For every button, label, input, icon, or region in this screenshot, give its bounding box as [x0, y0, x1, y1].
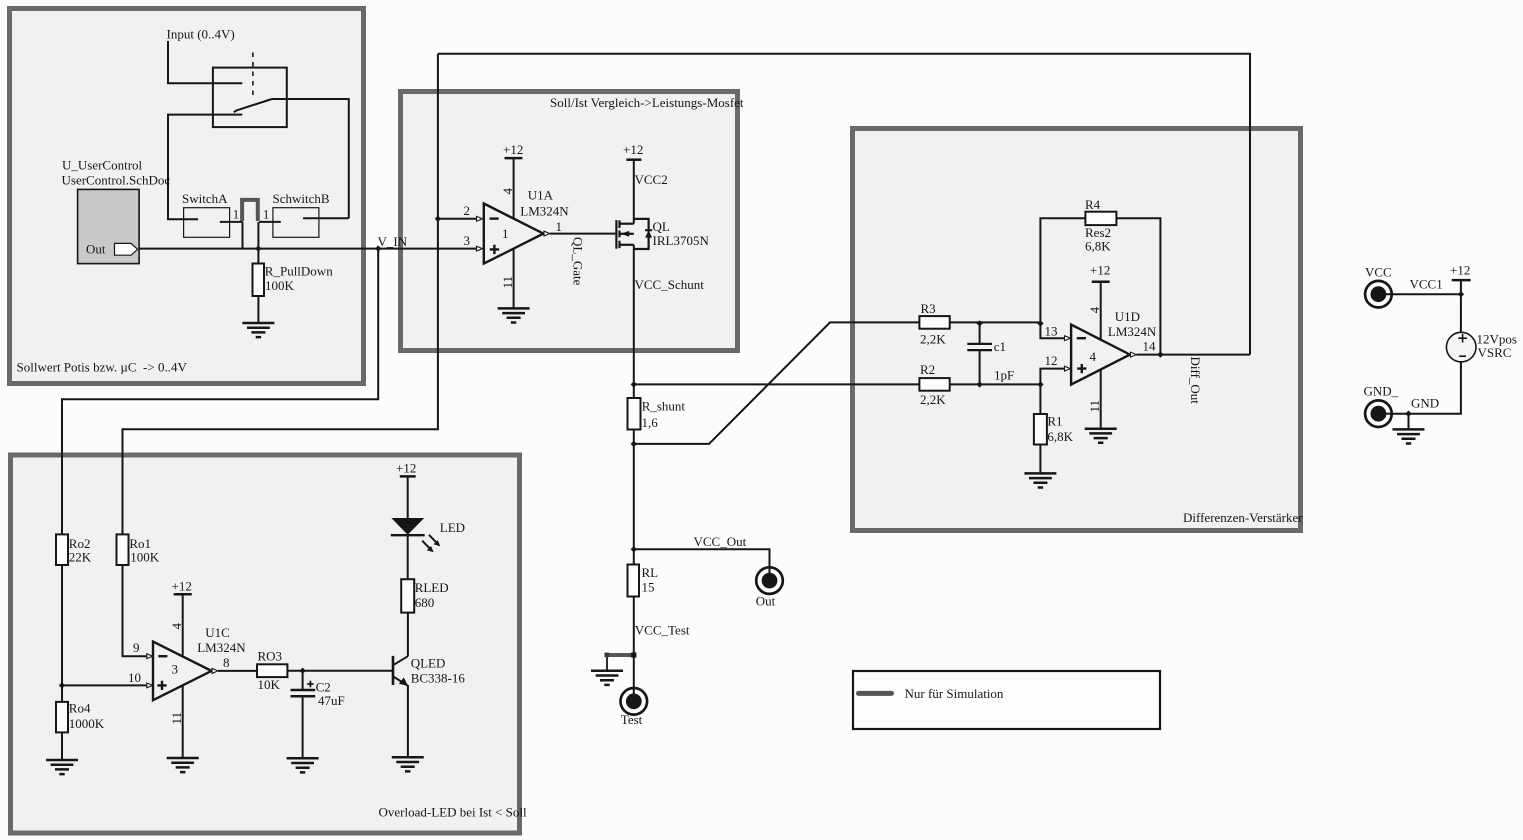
legend sample thick grey wire: [859, 691, 892, 696]
svg-text:1,6: 1,6: [642, 415, 659, 430]
svg-text:+12: +12: [503, 142, 523, 157]
led LED arrow 2: [422, 541, 429, 549]
resistor RLED body: [401, 579, 414, 612]
svg-text:Out: Out: [86, 241, 106, 256]
wire VSRC bottom to GND: [1409, 362, 1461, 414]
mosfet QL channel segments: [618, 220, 620, 248]
wire VCC2 to drain: [633, 160, 635, 224]
svg-text:R_PullDown: R_PullDown: [265, 264, 333, 279]
svg-text:R4: R4: [1085, 197, 1101, 212]
junction VCC1/+12: [1458, 291, 1464, 297]
mosfet QL source stub: [620, 244, 634, 246]
svg-text:2,2K: 2,2K: [920, 392, 946, 407]
wire U1D output to Diff_Out: [1136, 354, 1250, 356]
svg-text:Soll/Ist Vergleich->Leistungs-: Soll/Ist Vergleich->Leistungs-Mosfet: [550, 95, 744, 110]
wire U1C output to RO3: [218, 670, 257, 672]
sheet region box: Overload-LED: [11, 455, 520, 833]
diode cathode bar: [645, 229, 652, 231]
wire R3 input with diagonal from shunt: [634, 322, 920, 444]
power +12 bar U1D: [1092, 281, 1110, 284]
svg-text:14: 14: [1143, 339, 1157, 354]
junction R_shunt bottom: [631, 441, 637, 447]
sheet region box: Sollwert Potis: [10, 9, 364, 384]
svg-text:QL: QL: [653, 219, 670, 234]
svg-text:RO3: RO3: [258, 649, 283, 664]
wire from VCC port: [1384, 293, 1393, 295]
sheet region box: Soll/Ist Vergleich: [401, 92, 738, 351]
svg-text:Sollwert Potis bzw. µC -> 0..: Sollwert Potis bzw. µC -> 0..4V: [17, 359, 188, 374]
svg-text:+12: +12: [1450, 263, 1470, 278]
wire V_IN down to Ro2: [62, 249, 378, 535]
svg-text:3: 3: [464, 233, 471, 248]
svg-text:GND: GND: [1411, 395, 1439, 410]
svg-text:Overload-LED bei Ist < Soll: Overload-LED bei Ist < Soll: [379, 804, 528, 819]
wire sim ground stem: [606, 655, 608, 670]
switch S1 actuator dashed: [252, 53, 254, 97]
junction at SchwitchB pin1 / output: [255, 245, 261, 251]
svg-text:BC338-16: BC338-16: [411, 670, 466, 685]
svg-text:Ro2: Ro2: [69, 536, 91, 551]
ground below QLED: [392, 757, 424, 771]
pin 3 input arrow: [477, 246, 483, 251]
ground below R1: [1024, 473, 1056, 487]
capacitor C2 bottom lead: [302, 696, 304, 758]
mosfet QL body-diode loop: [634, 219, 649, 249]
op-amp U1C triangle: [153, 642, 212, 701]
svg-text:R1: R1: [1047, 414, 1062, 429]
mosfet QL symbol: [616, 160, 652, 249]
mosfet QL body stub: [620, 233, 634, 235]
wire main output net to V_IN: [138, 248, 477, 250]
junction RO3/C2: [299, 668, 305, 674]
wire VCC_Out to port: [634, 549, 770, 574]
port GND_ inner: [1371, 406, 1387, 422]
svg-text:100K: 100K: [265, 278, 295, 293]
svg-text:R3: R3: [921, 301, 936, 316]
resistor R4 body: [1085, 212, 1116, 225]
diode anode triangle: [645, 231, 652, 238]
ground below U1C: [167, 758, 199, 772]
wire into Out port: [769, 566, 771, 576]
ground below U1A: [498, 308, 530, 322]
resistor RO3 body: [257, 664, 287, 677]
wire from GND_ port: [1384, 413, 1393, 415]
svg-text:2: 2: [464, 203, 471, 218]
svg-text:+12: +12: [623, 142, 643, 157]
svg-text:100K: 100K: [130, 550, 160, 565]
svg-text:c1: c1: [994, 339, 1006, 354]
wire R_PullDown to ground: [257, 296, 259, 323]
sheet entry port Out: [115, 243, 138, 255]
wire simulation link SwitchA-SchwitchB: [242, 200, 258, 221]
svg-text:680: 680: [415, 595, 435, 610]
svg-text:2,2K: 2,2K: [920, 332, 946, 347]
relay SwitchA right contact: [220, 221, 243, 223]
op-amp U1D output arrow: [1131, 352, 1137, 357]
transistor QLED collector: [394, 613, 408, 665]
junction sim wire left end: [605, 653, 610, 658]
wire VCC1: [1385, 293, 1461, 295]
svg-text:11: 11: [1087, 400, 1102, 413]
wire pin12 jog: [1040, 369, 1064, 385]
wire SwitchA pin1 down: [242, 222, 244, 249]
ground sim: [591, 671, 623, 685]
svg-text:+12: +12: [1090, 263, 1110, 278]
power +12 bar U1A: [505, 157, 523, 160]
svg-text:10K: 10K: [258, 677, 281, 692]
BOX1: [138, 41, 477, 323]
power +12 bar source: [1452, 279, 1471, 282]
svg-text:V_IN: V_IN: [378, 234, 408, 249]
wire feedback top long: [438, 54, 1250, 355]
svg-text:RLED: RLED: [415, 580, 449, 595]
mosfet QL drain stub: [620, 223, 634, 225]
RIGHT: [1385, 280, 1471, 429]
relay SchwitchB left contact: [259, 221, 281, 223]
led LED arrow 1: [429, 535, 436, 543]
resistor Ro1 body: [117, 534, 129, 565]
svg-text:GND_: GND_: [1364, 384, 1399, 399]
svg-text:U_UserControl: U_UserControl: [62, 158, 143, 173]
led LED triangle: [391, 518, 424, 535]
wire R4 feedback loop: [1040, 218, 1160, 354]
svg-text:6,8K: 6,8K: [1047, 429, 1073, 444]
power +12 bar QL: [626, 158, 641, 161]
wire R2 input from shunt top: [634, 383, 920, 385]
transistor QLED base bar: [392, 656, 395, 685]
wire into Test port: [633, 687, 635, 697]
transistor QLED emitter: [394, 677, 408, 757]
resistor RL body: [628, 565, 640, 597]
resistor R_shunt body: [628, 398, 641, 430]
wire junction to R_PullDown: [257, 249, 259, 264]
legend box: [853, 671, 1160, 729]
wire U1A output to gate: [550, 233, 616, 235]
mosfet QL body arrow: [621, 231, 629, 237]
MIDDLE: [606, 245, 770, 695]
svg-text:Diff_Out: Diff_Out: [1188, 357, 1203, 405]
relay SwitchA body: [184, 208, 230, 238]
resistor R1 body: [1034, 414, 1047, 445]
junction R_shunt top: [631, 381, 637, 387]
op-amp U1D plus sign: [1077, 364, 1086, 373]
relay SchwitchB body: [273, 208, 319, 238]
svg-text:LM324N: LM324N: [197, 640, 246, 655]
port Out inner: [762, 573, 778, 589]
port Test outer: [621, 688, 648, 715]
junction at V_IN corner: [375, 245, 381, 251]
capacitor C2 plates: [291, 690, 316, 696]
wire R3 to node c1 top: [950, 321, 1041, 323]
wire simulation ground link: [606, 653, 634, 657]
port Out outer: [756, 567, 783, 594]
switch S1 body: [213, 68, 287, 128]
svg-text:VCC2: VCC2: [635, 172, 668, 187]
op-amp U1D triangle: [1071, 325, 1130, 385]
wire GND port stub: [1385, 413, 1409, 415]
wire RO3 to QLED base: [287, 670, 393, 672]
svg-text:UserControl.SchDoc: UserControl.SchDoc: [62, 173, 171, 188]
svg-text:9: 9: [133, 640, 140, 655]
op-amp U1A pin11 line: [513, 249, 515, 308]
capacitor c1 plates: [967, 344, 992, 350]
ground below U1D: [1085, 429, 1117, 443]
BOX3: [634, 212, 1250, 473]
svg-text:VCC: VCC: [1365, 265, 1392, 280]
svg-text:1: 1: [233, 206, 240, 221]
capacitor C2 plus sign: [307, 681, 313, 687]
pin 12 input arrow: [1065, 366, 1071, 371]
svg-text:IRL3705N: IRL3705N: [653, 233, 710, 248]
sheet region box: Differenzen-Verstaerker: [853, 129, 1301, 531]
wire GND ground stem: [1408, 414, 1410, 429]
svg-text:22K: 22K: [69, 550, 92, 565]
power +12 bar LED: [400, 475, 416, 478]
resistor R1 top lead: [1039, 384, 1041, 414]
ground below GND junction: [1393, 429, 1425, 443]
capacitor C2 top lead: [302, 671, 304, 690]
resistor Ro2 body: [56, 534, 68, 565]
wire SchwitchB pin1 down: [257, 222, 259, 249]
svg-text:3: 3: [172, 661, 179, 676]
svg-text:Out: Out: [756, 593, 776, 608]
resistor RL leads: [633, 549, 635, 695]
source VSRC circle: [1446, 332, 1476, 362]
svg-text:U1D: U1D: [1115, 309, 1140, 324]
op-amp U1D minus sign: [1077, 337, 1086, 339]
wire Input net: [168, 41, 242, 83]
op-amp U1D pin11 line: [1100, 370, 1102, 428]
junction VCC_Out: [631, 546, 637, 552]
junction output/R4: [1157, 351, 1163, 357]
wire switch output: [272, 99, 349, 218]
svg-text:QL_Gate: QL_Gate: [571, 237, 586, 286]
op-amp U1C pin11 line: [182, 686, 184, 758]
op-amp U1A output arrow: [544, 231, 550, 236]
pin 10 input arrow: [147, 683, 153, 688]
ground below C2: [287, 758, 319, 772]
junction R3/c1: [976, 320, 982, 326]
svg-text:LM324N: LM324N: [1108, 324, 1157, 339]
junction VCC_Test: [631, 652, 636, 657]
svg-text:VCC_Test: VCC_Test: [635, 623, 690, 638]
op-amp U1C output arrow: [212, 668, 218, 673]
svg-text:LED: LED: [440, 520, 465, 535]
svg-text:VCC_Out: VCC_Out: [694, 534, 747, 549]
junction pin2/feedback: [435, 216, 441, 222]
mosfet QL gate bar: [615, 220, 617, 249]
svg-text:1: 1: [556, 219, 563, 234]
source VSRC plus: [1458, 334, 1467, 343]
wire pin13 jog: [1040, 323, 1064, 338]
svg-text:13: 13: [1045, 323, 1058, 338]
junction R2/c1: [976, 381, 982, 387]
op-amp U1A triangle: [484, 204, 544, 264]
resistor R3 body: [919, 316, 949, 329]
svg-text:10: 10: [128, 670, 141, 685]
svg-text:4: 4: [1090, 349, 1097, 364]
junction pin12/R1 node: [1037, 381, 1043, 387]
wire Ro4 to ground: [61, 732, 63, 759]
ground below R_PullDown: [242, 323, 274, 337]
transistor QLED emitter arrow: [399, 678, 408, 687]
svg-text:Ro1: Ro1: [129, 536, 151, 551]
led LED cathode bar: [391, 534, 425, 536]
junction pin13 node: [1037, 320, 1043, 326]
pin 9 input arrow: [147, 654, 153, 659]
svg-text:4: 4: [500, 188, 515, 195]
port Test inner: [626, 693, 642, 709]
ground below Ro4: [46, 760, 78, 774]
wire VCC_Schunt down: [633, 245, 635, 398]
svg-text:LM324N: LM324N: [520, 204, 569, 219]
wire feedback left leg down to Ro1: [123, 54, 438, 535]
relay SchwitchB right contact: [303, 217, 349, 219]
svg-text:R_shunt: R_shunt: [642, 399, 686, 414]
wire Ro2 to Ro4: [61, 565, 63, 702]
op-amp U1A plus sign: [490, 245, 499, 254]
svg-text:U1A: U1A: [528, 188, 554, 203]
wire +12 to LED: [407, 476, 409, 518]
op-amp U1D pin4 line: [1100, 282, 1102, 340]
junction GND: [1405, 411, 1411, 417]
svg-text:+12: +12: [396, 460, 416, 475]
svg-text:Input (0..4V): Input (0..4V): [167, 27, 235, 42]
capacitor c1 bottom lead: [979, 350, 981, 384]
power +12 bar U1C: [174, 593, 192, 596]
wire pin10 from divider: [62, 684, 147, 686]
svg-text:SwitchA: SwitchA: [182, 191, 228, 206]
svg-text:+12: +12: [172, 578, 192, 593]
svg-text:6,8K: 6,8K: [1085, 238, 1111, 253]
svg-text:U1C: U1C: [205, 625, 230, 640]
svg-text:SchwitchB: SchwitchB: [273, 191, 330, 206]
wire LED to RLED: [407, 535, 409, 579]
svg-text:R2: R2: [920, 362, 935, 377]
svg-text:VCC_Schunt: VCC_Schunt: [635, 277, 705, 292]
capacitor c1 top lead: [979, 323, 981, 343]
svg-text:VCC1: VCC1: [1410, 276, 1443, 291]
svg-text:Differenzen-Verstärker: Differenzen-Verstärker: [1183, 510, 1303, 525]
junction divider/pin10: [59, 682, 65, 688]
port VCC outer: [1365, 281, 1392, 308]
wire Ro1 to pin9: [123, 565, 147, 656]
wire +12 stem to junction: [1460, 280, 1462, 332]
svg-text:1pF: 1pF: [994, 368, 1014, 383]
resistor Ro4 body: [56, 702, 68, 733]
svg-text:12: 12: [1045, 353, 1058, 368]
svg-text:QLED: QLED: [411, 656, 446, 671]
resistor R2 body: [919, 378, 949, 391]
wire R_shunt bottom: [633, 430, 635, 550]
wire lower throw to switch: [168, 115, 242, 220]
op-amp U1C pin4 line: [182, 594, 184, 656]
wire R2 to node c1 bottom: [950, 383, 1041, 385]
svg-text:Ro4: Ro4: [69, 700, 91, 715]
svg-text:1: 1: [502, 226, 509, 241]
switch S1 lever: [234, 99, 272, 112]
svg-text:15: 15: [642, 579, 655, 594]
pin 2 input arrow: [477, 216, 483, 221]
source VSRC minus: [1459, 355, 1466, 357]
sheet symbol U_UserControl: [78, 189, 140, 263]
op-amp U1A minus sign: [490, 217, 499, 219]
svg-text:RL: RL: [642, 565, 659, 580]
svg-text:47uF: 47uF: [318, 693, 345, 708]
wire pin2 from feedback: [438, 218, 477, 220]
svg-text:Nur für Simulation: Nur für Simulation: [905, 686, 1004, 701]
op-amp U1C minus sign: [158, 655, 167, 657]
svg-text:4: 4: [169, 623, 184, 630]
resistor R1 bottom lead: [1039, 445, 1041, 473]
svg-text:1: 1: [263, 206, 270, 221]
svg-text:11: 11: [500, 276, 515, 289]
svg-text:VSRC: VSRC: [1478, 345, 1512, 360]
BOX4: [56, 476, 425, 759]
op-amp U1C plus sign: [157, 681, 166, 690]
port GND_ outer: [1365, 400, 1392, 427]
svg-text:8: 8: [223, 655, 230, 670]
port VCC inner: [1371, 286, 1387, 302]
pin 13 input arrow: [1065, 336, 1071, 341]
resistor R_PullDown body: [253, 264, 265, 297]
svg-text:1000K: 1000K: [69, 716, 105, 731]
op-amp U1A pin4 line: [513, 158, 515, 219]
svg-text:11: 11: [169, 712, 184, 725]
svg-text:Test: Test: [621, 712, 643, 727]
svg-text:4: 4: [1087, 306, 1102, 313]
